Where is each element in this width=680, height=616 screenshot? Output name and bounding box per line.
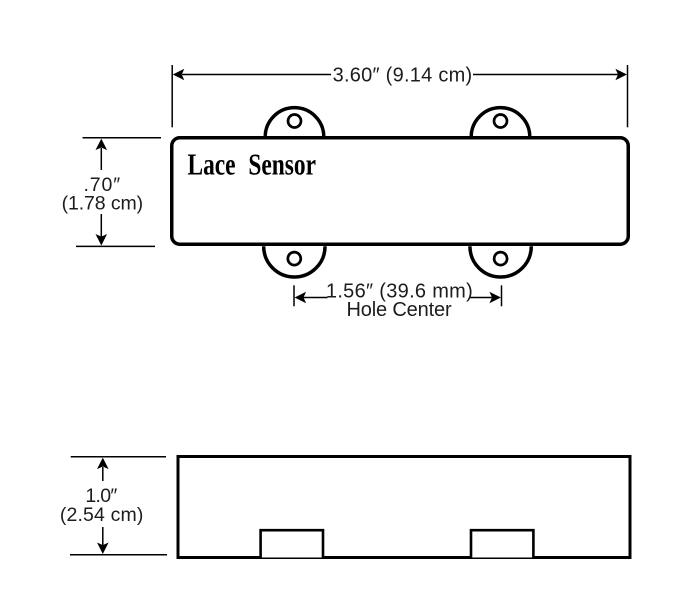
svg-text:LaceSensor: LaceSensor (188, 147, 317, 181)
svg-text:Hole Center: Hole Center (346, 299, 452, 321)
svg-text:(2.54 cm): (2.54 cm) (60, 504, 144, 526)
svg-text:3.60″ (9.14 cm): 3.60″ (9.14 cm) (333, 65, 473, 87)
svg-text:(1.78 cm): (1.78 cm) (62, 193, 143, 215)
